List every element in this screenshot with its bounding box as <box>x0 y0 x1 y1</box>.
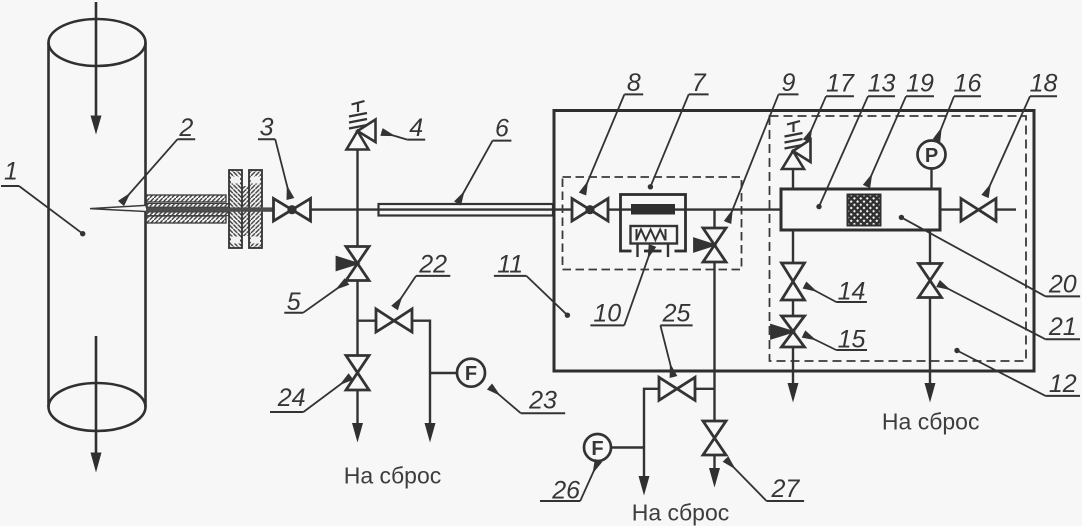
svg-text:17: 17 <box>826 70 855 98</box>
valve 25 <box>659 377 695 400</box>
label 24 <box>270 377 351 413</box>
wire: branch to valve 22 <box>358 320 377 322</box>
valve 22 <box>376 309 412 332</box>
enclosure 11 (cabinet) <box>554 111 1034 372</box>
label 21 <box>938 284 1080 342</box>
label 7 <box>650 69 708 187</box>
wire: valve25 to corner and down <box>644 389 659 477</box>
wire: drop line to valve 5 <box>356 210 358 247</box>
analyzer box (device in 7) <box>621 195 686 252</box>
safety valve 4 <box>347 101 376 150</box>
wire: drop to valve 9 <box>713 210 715 228</box>
flow arrow into pipe (top) <box>91 2 102 135</box>
label 25 <box>660 299 692 377</box>
flow meter 23 <box>457 359 485 387</box>
label 22 <box>395 251 451 309</box>
probe sheath (packing gland) <box>146 195 229 223</box>
wire: valve21 down <box>929 298 931 385</box>
valve 27 <box>703 421 726 455</box>
svg-text:На сброс: На сброс <box>632 500 730 526</box>
wire: valve15 down <box>792 347 794 384</box>
heater 10 <box>631 226 678 257</box>
wire: branch to valve 25 <box>695 388 715 390</box>
wire: analyzer to vessel <box>686 208 782 210</box>
wire: vessel right to valve 18 <box>940 208 961 210</box>
label 10 <box>590 246 652 328</box>
svg-text:На сброс: На сброс <box>882 409 980 435</box>
tube 6 (capillary line) <box>379 204 554 216</box>
label 26 <box>540 461 599 505</box>
label 13 <box>819 70 895 207</box>
svg-text:4: 4 <box>409 114 423 142</box>
wire: tap to flow meter 26 <box>611 446 644 448</box>
wire: valve22 to corner and down <box>412 321 430 424</box>
wire: branch riser at x357 <box>356 150 358 210</box>
probe stem rod <box>146 207 274 211</box>
label 19 <box>867 70 935 187</box>
label 23 <box>490 387 566 415</box>
wire: vessel bottom-right drop <box>929 230 931 264</box>
wire: valve8 to analyzer <box>608 208 621 210</box>
flange pair <box>229 170 262 248</box>
flow arrow out of pipe (bottom) <box>91 336 102 473</box>
svg-text:27: 27 <box>770 475 800 503</box>
wire: vessel bottom-left drop <box>792 230 794 263</box>
wire: valve5 down to valve24 <box>356 281 358 356</box>
wire: main line valve3 to enclosure <box>311 208 573 210</box>
svg-text:F: F <box>465 363 477 385</box>
valve 9 <box>695 228 727 262</box>
wire: valve27 down <box>713 455 715 469</box>
svg-text:24: 24 <box>277 384 306 412</box>
wire: valve18 outlet <box>996 208 1016 210</box>
probe 2 (sampling needle) <box>90 205 147 211</box>
label 8 <box>583 69 644 194</box>
wire: vessel top to safety valve 17 <box>792 169 794 189</box>
svg-text:18: 18 <box>1030 70 1058 98</box>
svg-text:2: 2 <box>178 114 193 142</box>
svg-text:22: 22 <box>418 251 447 279</box>
vessel 13 <box>781 189 940 230</box>
svg-text:11: 11 <box>497 251 523 279</box>
discharge arrow (drain line 24) <box>352 423 363 443</box>
valve 8 <box>572 199 608 222</box>
valve 15 <box>772 316 805 347</box>
svg-text:21: 21 <box>1048 313 1077 341</box>
sorbent bed 19 <box>848 195 881 226</box>
discharge arrow (drain line 15) <box>788 383 799 403</box>
wire: valve9 down through cabinet to valve 27 <box>713 262 715 421</box>
svg-text:13: 13 <box>868 70 896 98</box>
svg-text:12: 12 <box>1049 370 1077 398</box>
svg-text:5: 5 <box>287 288 301 316</box>
svg-text:25: 25 <box>662 299 691 327</box>
svg-text:8: 8 <box>627 69 641 97</box>
label 2 <box>121 114 195 204</box>
safety valve 17 <box>782 121 811 169</box>
pressure gauge 16 <box>918 141 946 169</box>
svg-text:3: 3 <box>260 113 274 141</box>
svg-text:9: 9 <box>782 69 796 97</box>
label 9 <box>728 69 799 223</box>
label 11 <box>494 251 568 316</box>
svg-text:19: 19 <box>906 70 934 98</box>
label 6 <box>458 115 512 204</box>
discharge arrow (drain line 25) <box>639 476 650 496</box>
svg-text:10: 10 <box>593 299 621 327</box>
pipe 1 (process pipeline cylinder) <box>49 19 146 431</box>
enclosure 12 (dashed) <box>770 116 1027 361</box>
svg-text:На сброс: На сброс <box>344 463 442 489</box>
label 20 <box>901 217 1080 298</box>
valve 5 <box>337 247 369 281</box>
label 18 <box>985 70 1057 197</box>
flow meter 26 <box>584 434 611 461</box>
valve 24 <box>346 356 369 391</box>
svg-text:7: 7 <box>692 69 707 97</box>
wire: line through analyzer box <box>621 208 686 210</box>
svg-text:F: F <box>591 438 603 460</box>
svg-text:23: 23 <box>528 387 557 415</box>
label 5 <box>284 282 347 316</box>
label 16 <box>937 70 982 141</box>
label 17 <box>807 70 855 142</box>
label 12 <box>957 351 1080 398</box>
label 4 <box>382 114 426 142</box>
valve 18 <box>961 199 996 222</box>
label 3 <box>258 113 290 199</box>
label 27 <box>726 459 805 503</box>
valve 21 <box>919 264 942 298</box>
wire: tap to flow meter 23 <box>430 372 457 374</box>
label 14 <box>805 277 867 305</box>
label 15 <box>804 325 868 353</box>
svg-text:1: 1 <box>4 158 18 186</box>
valve 3 <box>274 199 311 222</box>
label 1 <box>1 158 83 234</box>
enclosure 7 (dashed thermostat box) <box>563 177 742 270</box>
wire: valve14 to valve15 <box>792 300 794 316</box>
svg-text:6: 6 <box>495 115 509 143</box>
wire: vessel top to gauge 16 <box>930 169 932 190</box>
valve 14 <box>782 263 805 300</box>
discharge arrow (drain line 27) <box>709 468 720 488</box>
svg-text:16: 16 <box>954 70 982 98</box>
discharge arrow (drain line 21) <box>925 383 936 403</box>
discharge arrow (drain line 22) <box>425 423 436 443</box>
sensor bar <box>631 204 675 215</box>
svg-text:P: P <box>925 145 938 167</box>
svg-text:20: 20 <box>1048 270 1077 298</box>
wire: valve24 down <box>356 390 358 424</box>
